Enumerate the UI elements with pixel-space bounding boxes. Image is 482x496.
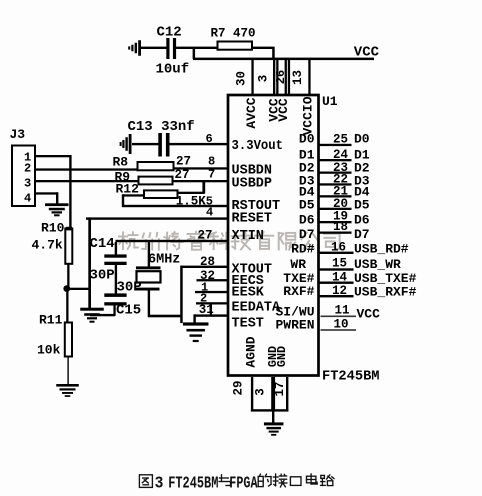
svg-text:4: 4 <box>24 192 31 206</box>
svg-text:3: 3 <box>256 75 270 83</box>
svg-text:1.5K: 1.5K <box>176 194 207 208</box>
svg-text:18: 18 <box>333 220 348 234</box>
svg-text:10uf: 10uf <box>156 62 190 78</box>
svg-text:RESET: RESET <box>232 211 273 226</box>
svg-text:11: 11 <box>335 304 350 318</box>
svg-text:AGND: AGND <box>244 336 259 367</box>
svg-text:U1: U1 <box>322 94 338 109</box>
svg-text:RD#: RD# <box>291 241 315 256</box>
svg-text:13: 13 <box>291 70 305 85</box>
svg-text:VCC: VCC <box>357 306 381 321</box>
svg-text:10k: 10k <box>37 343 61 358</box>
svg-text:7: 7 <box>208 168 215 182</box>
svg-text:15: 15 <box>332 257 347 271</box>
svg-text:D0: D0 <box>354 132 370 147</box>
svg-text:USB_RXF#: USB_RXF# <box>354 284 417 299</box>
svg-text:C12: C12 <box>157 25 182 41</box>
svg-text:D7: D7 <box>299 227 315 242</box>
svg-text:FT245BM: FT245BM <box>322 370 380 385</box>
svg-text:WR: WR <box>290 257 306 272</box>
svg-text:C13 33nf: C13 33nf <box>128 119 195 135</box>
svg-text:4: 4 <box>206 206 213 220</box>
svg-text:XTIN: XTIN <box>232 229 264 244</box>
svg-text:PWREN: PWREN <box>275 317 314 332</box>
svg-text:FT245BM: FT245BM <box>168 473 218 492</box>
svg-text:D6: D6 <box>354 213 370 228</box>
svg-text:25: 25 <box>333 133 348 147</box>
svg-text:27: 27 <box>176 155 191 169</box>
svg-text:12: 12 <box>332 284 347 298</box>
svg-text:3.3Vout: 3.3Vout <box>232 139 284 154</box>
svg-text:29: 29 <box>231 380 245 395</box>
svg-text:USBDP: USBDP <box>232 176 273 191</box>
svg-text:D5: D5 <box>299 198 315 213</box>
svg-text:VCC: VCC <box>354 44 380 60</box>
svg-text:USB_RD#: USB_RD# <box>354 242 409 257</box>
svg-text:17: 17 <box>273 381 287 396</box>
svg-text:D0: D0 <box>299 132 315 147</box>
svg-text:6: 6 <box>206 132 213 146</box>
svg-text:D5: D5 <box>354 198 370 213</box>
svg-text:27: 27 <box>198 229 213 243</box>
svg-text:C15: C15 <box>116 303 141 319</box>
svg-text:R10: R10 <box>41 221 65 236</box>
svg-text:24: 24 <box>333 148 349 162</box>
svg-text:FPGA: FPGA <box>229 473 257 492</box>
svg-text:D7: D7 <box>354 227 370 242</box>
svg-text:VCCIO: VCCIO <box>301 96 316 135</box>
svg-text:16: 16 <box>331 241 346 255</box>
svg-text:R8: R8 <box>113 155 129 170</box>
svg-text:14: 14 <box>332 270 348 284</box>
svg-text:USB_WR: USB_WR <box>354 257 401 272</box>
svg-text:J3: J3 <box>10 127 26 142</box>
svg-text:R12: R12 <box>116 182 140 197</box>
svg-text:26: 26 <box>274 70 288 84</box>
svg-text:4.7k: 4.7k <box>32 238 63 253</box>
svg-text:GND: GND <box>275 346 289 367</box>
svg-text:3: 3 <box>24 177 31 191</box>
svg-text:3: 3 <box>155 473 164 492</box>
svg-text:D6: D6 <box>299 212 315 227</box>
svg-text:EEDATA: EEDATA <box>232 300 282 315</box>
svg-text:8: 8 <box>208 155 215 169</box>
svg-text:R11: R11 <box>39 313 63 328</box>
svg-text:R7 470: R7 470 <box>211 27 256 41</box>
svg-text:TEST: TEST <box>232 316 264 331</box>
svg-text:10: 10 <box>334 317 349 331</box>
svg-text:27: 27 <box>175 168 190 182</box>
svg-text:VCC: VCC <box>276 98 291 122</box>
svg-text:28: 28 <box>200 255 215 269</box>
svg-text:C14: C14 <box>90 236 115 252</box>
svg-text:30: 30 <box>234 71 248 86</box>
svg-text:RXF#: RXF# <box>283 284 314 299</box>
svg-text:AVCC: AVCC <box>244 97 259 128</box>
svg-text:2: 2 <box>24 162 31 176</box>
svg-text:EESK: EESK <box>232 286 265 301</box>
svg-text:30P: 30P <box>90 268 115 284</box>
svg-text:6MHz: 6MHz <box>148 253 180 268</box>
svg-text:3: 3 <box>253 388 267 396</box>
